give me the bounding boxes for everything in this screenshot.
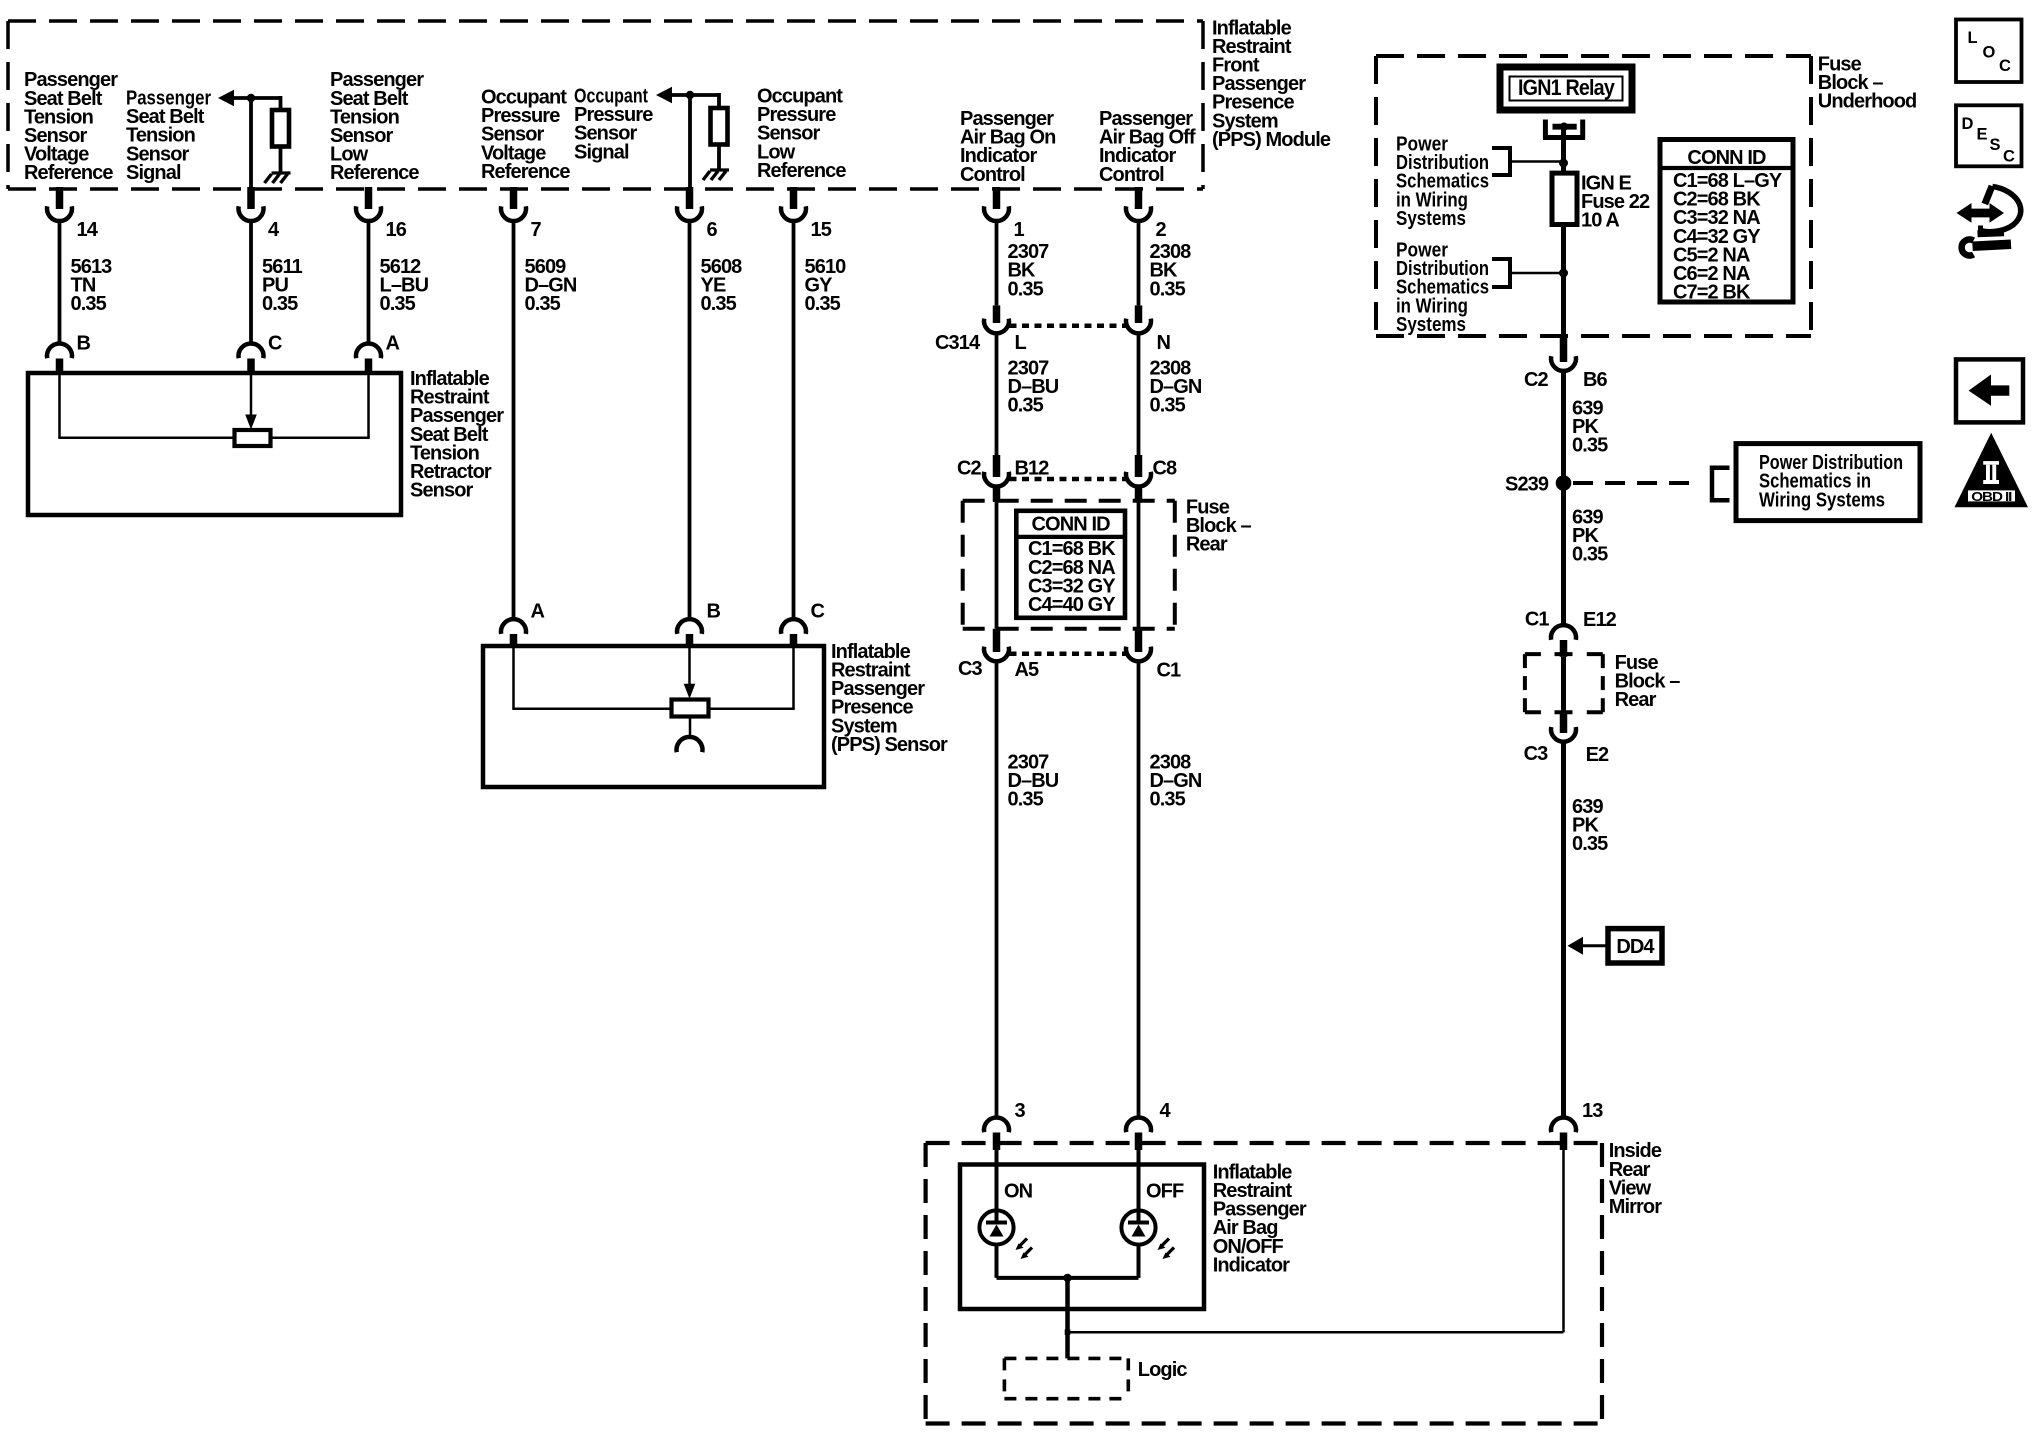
svg-text:C: C [2003, 148, 2015, 166]
wire circuit at x=59.5 module to retractor sensor [58, 221, 62, 344]
svg-text:0.35: 0.35 [380, 293, 416, 315]
svg-text:0.35: 0.35 [1572, 833, 1608, 855]
svg-text:14: 14 [77, 219, 99, 241]
relay pin bracket [1543, 120, 1548, 140]
svg-text:3: 3 [1015, 1100, 1026, 1122]
svg-text:C1: C1 [1525, 608, 1550, 630]
svg-text:Underhood: Underhood [1818, 91, 1917, 113]
wire label 639 PK 0.35 third [1572, 796, 1608, 855]
svg-text:Signal: Signal [574, 141, 629, 163]
pin stub 7 of PPS module [510, 187, 518, 209]
wire through fuse block rear right [1137, 502, 1141, 629]
label Inflatable Restraint Passenger Air Bag ON/OFF Indicator [1213, 1161, 1307, 1276]
pin stub 3 into mirror box [993, 1133, 1001, 1151]
pin stub below fuse block to cup A5 [993, 629, 1001, 652]
wire circuit at x=793.5 module to PPS sensor [792, 221, 796, 619]
CONN ID table underhood fuse block [1660, 140, 1793, 303]
Inside Rear View Mirror dashed box [926, 1143, 1602, 1424]
Power Distribution Schematics in Wiring Systems reference box [1736, 444, 1920, 521]
svg-text:10 A: 10 A [1581, 210, 1619, 232]
connector cup E2 [1551, 727, 1576, 742]
connector cup C retractor sensor [239, 343, 264, 358]
arrow to Occupant Pressure Sensor Signal text [656, 87, 672, 103]
wire B6 to S239 [1561, 371, 1566, 483]
node S junction upper [1559, 159, 1568, 168]
pin stub B into PPS sensor box [686, 634, 694, 647]
wire label 2308 D-GN 0.35 lower [1150, 752, 1202, 811]
pin stub above cup C8 [1135, 455, 1143, 477]
svg-text:L: L [1968, 29, 1978, 47]
PPS module dashed outline box [8, 21, 1203, 189]
IGN1 Relay box [1500, 67, 1632, 110]
connector cup C314 L [984, 319, 1009, 334]
svg-text:4: 4 [1160, 1100, 1172, 1122]
pin stub above C314 N [1135, 305, 1143, 323]
label Passenger Air Bag Off Indicator Control [1099, 108, 1196, 186]
svg-text:0.35: 0.35 [71, 293, 107, 315]
ground hook PPS sensor [677, 737, 703, 752]
svg-text:4: 4 [268, 219, 280, 241]
label Passenger Seat Belt Tension Sensor Signal [126, 88, 211, 184]
svg-text:Rear: Rear [1615, 689, 1657, 711]
connector cup A5 [984, 647, 1009, 662]
svg-text:0.35: 0.35 [1150, 278, 1186, 300]
Fuse Block Rear dashed box [963, 501, 1175, 629]
svg-text:OFF: OFF [1146, 1181, 1184, 1203]
wire bracket upper to node [1512, 160, 1564, 163]
svg-text:Reference: Reference [24, 162, 113, 184]
label Passenger Seat Belt Tension Sensor Voltage Reference [24, 69, 118, 184]
svg-text:Mirror: Mirror [1609, 1196, 1663, 1218]
wire label 2307 BK 0.35 [1008, 241, 1050, 300]
svg-text:C3: C3 [1524, 743, 1549, 765]
lamp ON indicator [979, 1210, 1013, 1244]
svg-text:Control: Control [960, 164, 1025, 186]
ground chassis G2 [703, 170, 729, 180]
connector cup B retractor sensor [47, 343, 72, 358]
wire label 5610 GY 0.35 [805, 256, 847, 315]
svg-text:CONN ID: CONN ID [1032, 514, 1111, 536]
svg-text:0.35: 0.35 [805, 293, 841, 315]
wire fuse to box bottom [1561, 224, 1566, 337]
svg-text:0.35: 0.35 [262, 293, 298, 315]
resistor internal R2 [711, 108, 728, 145]
dotted connector line C3-C1 [1010, 652, 1126, 657]
svg-text:ON: ON [1004, 1181, 1033, 1203]
svg-text:Reference: Reference [757, 160, 846, 182]
pin stub 13 into mirror box [1560, 1133, 1568, 1151]
wire bracket lower to node [1512, 272, 1564, 275]
wire 2307 D-BU fuse block to indicator [995, 661, 999, 1117]
node junction to mirror feed [1065, 1329, 1071, 1335]
label Power Distribution Schematics in Wiring Systems lower [1396, 240, 1489, 336]
CONN ID table rear fuse block [1016, 511, 1125, 618]
pin stub below cup E12 [1560, 640, 1568, 657]
svg-text:DD4: DD4 [1616, 936, 1655, 958]
label Fuse Block Rear right [1615, 652, 1681, 711]
svg-text:B6: B6 [1583, 369, 1608, 391]
svg-text:16: 16 [386, 219, 407, 241]
svg-text:0.35: 0.35 [1572, 544, 1608, 566]
dashed reference line S239 [1573, 481, 1701, 485]
connector cup pin 4 [1126, 1117, 1151, 1132]
connector cup C314 N [1126, 319, 1151, 334]
connector cup pin 7 [501, 206, 526, 221]
connector cup E12 [1551, 625, 1576, 640]
label Inside Rear View Mirror [1609, 1140, 1663, 1218]
connector cup B6 [1551, 356, 1576, 371]
pin stub 1 of PPS module [993, 187, 1001, 209]
label Fuse Block Rear [1186, 497, 1252, 556]
pin stub 16 of PPS module [365, 187, 373, 209]
wire pin4 to OFF lamp [1137, 1150, 1141, 1211]
arrow wiper retractor potentiometer [245, 415, 257, 430]
label Inflatable Restraint Front Passenger Presence System (PPS) Module [1212, 17, 1331, 151]
svg-text:IGN1 Relay: IGN1 Relay [1518, 75, 1615, 100]
fuse IGN E Fuse 22 10A [1552, 173, 1577, 224]
svg-text:0.35: 0.35 [1008, 278, 1044, 300]
Fuse Block Underhood dashed box [1376, 56, 1811, 336]
resistor retractor potentiometer [235, 430, 271, 446]
pin stub 14 of PPS module [56, 187, 64, 209]
connector cup C8 [1126, 472, 1151, 487]
wire internal A leg PPS [512, 646, 515, 709]
pin stub above cup B12 [993, 455, 1001, 477]
pin stub B into retractor sensor box [56, 359, 64, 375]
svg-text:OBD II: OBD II [1971, 490, 2011, 504]
dotted connector line C2-C8 [1010, 477, 1126, 482]
svg-text:2: 2 [1156, 219, 1167, 241]
connector cup C1 [1126, 647, 1151, 662]
svg-text:CONN ID: CONN ID [1687, 147, 1766, 169]
pin stub A into retractor sensor box [365, 359, 373, 375]
wire label 5608 YE 0.35 [701, 256, 743, 315]
svg-text:D: D [1962, 115, 1974, 133]
svg-text:S: S [1990, 136, 2001, 154]
label Occupant Pressure Sensor Low Reference [757, 86, 846, 182]
wire label 639 PK 0.35 first [1572, 398, 1608, 457]
pin stub 15 of PPS module [790, 187, 798, 209]
svg-text:C2: C2 [1524, 369, 1549, 391]
pin stub C into PPS sensor box [790, 634, 798, 647]
connector cup pin 1 [984, 206, 1009, 221]
wire R2 to ground [717, 144, 721, 169]
svg-text:15: 15 [811, 219, 832, 241]
wire pin6 vertical inside module [688, 95, 692, 189]
pin stub above cup E2 [1560, 712, 1568, 733]
ground chassis G1 [265, 173, 291, 183]
resistor PPS potentiometer [672, 700, 709, 717]
svg-text:0.35: 0.35 [525, 293, 561, 315]
svg-text:B: B [77, 332, 91, 354]
wire label 2307 D-BU 0.35 upper [1008, 357, 1059, 416]
connector cup pin 16 [356, 206, 381, 221]
off-page bracket upper [1508, 146, 1512, 177]
wire circuit at x=513.5 module to PPS sensor [512, 221, 516, 619]
pin stub below underhood box [1560, 336, 1568, 362]
wire internal B wiper PPS [688, 646, 691, 685]
wire ON lamp down [995, 1245, 999, 1278]
svg-text:0.35: 0.35 [701, 293, 737, 315]
label IGN E Fuse 22 10 A [1581, 173, 1650, 232]
svg-text:7: 7 [531, 219, 542, 241]
Inflatable Restraint Passenger Seat Belt Tension Retractor Sensor box [28, 373, 401, 515]
wire internal C leg PPS [792, 646, 795, 709]
connector cup pin 4 [239, 206, 264, 221]
svg-text:C: C [811, 600, 825, 622]
Logic dashed box [1004, 1358, 1128, 1398]
svg-text:C2: C2 [957, 457, 982, 479]
arrow wiper PPS potentiometer [684, 684, 696, 699]
connector cup B12 [984, 472, 1009, 487]
wire internal A leg [367, 373, 370, 438]
svg-text:Reference: Reference [481, 161, 570, 183]
svg-text:B: B [707, 600, 721, 622]
svg-text:E2: E2 [1586, 744, 1609, 766]
wire relay to fuse [1561, 127, 1566, 174]
wire R1 to ground [279, 147, 283, 173]
connector cup B PPS sensor [677, 619, 702, 634]
svg-text:Signal: Signal [126, 162, 181, 184]
wire lamps common [997, 1276, 1139, 1280]
svg-text:Systems: Systems [1396, 208, 1466, 230]
label Passenger Air Bag On Indicator Control [960, 108, 1055, 186]
wire 2308 D-GN fuse block to indicator [1137, 661, 1141, 1117]
svg-text:0.35: 0.35 [1008, 395, 1044, 417]
off-page bracket S239 [1710, 466, 1715, 503]
wire circuit 2307 BK pin1 to C314 [995, 221, 999, 305]
light rays OFF lamp [1158, 1239, 1175, 1260]
label Power Distribution Schematics in Wiring Systems upper [1396, 134, 1489, 230]
pin stub above C314 L [993, 305, 1001, 323]
wire pin4 vertical inside module [249, 98, 253, 189]
svg-text:S239: S239 [1505, 474, 1549, 496]
svg-text:C1: C1 [1157, 660, 1182, 682]
wire common down to logic [1065, 1278, 1070, 1359]
wire mirror feed horizontal [1068, 1331, 1564, 1334]
pin stub A into PPS sensor box [510, 634, 518, 647]
pin stub below cup C8 into fuse block [1135, 487, 1143, 503]
connector cup A retractor sensor [356, 343, 381, 358]
wire R2 branch down [717, 93, 721, 109]
wire label 2308 BK 0.35 [1150, 241, 1192, 300]
resistor internal R1 [272, 110, 289, 147]
wire OFF lamp down [1137, 1245, 1141, 1278]
svg-text:Logic: Logic [1138, 1359, 1188, 1381]
dotted connector line C314 [1010, 324, 1126, 329]
wire label 5609 D&#8211;GN 0.35 [525, 256, 577, 315]
svg-text:C314: C314 [935, 332, 981, 354]
svg-text:Wiring Systems: Wiring Systems [1759, 489, 1885, 511]
svg-text:A: A [386, 332, 400, 354]
schematic navigation icon [1957, 203, 2005, 223]
svg-text:A5: A5 [1015, 659, 1040, 681]
label Passenger Seat Belt Tension Sensor Low Reference [330, 69, 424, 184]
label Inflatable Restraint Passenger Presence System (PPS) Sensor [831, 641, 948, 756]
wire 2308 D-GN C314 to fuse block [1137, 333, 1141, 456]
OBD II icon [1955, 433, 2029, 507]
connector cup pin 2 [1126, 206, 1151, 221]
wire PPS resistor to case ground [689, 717, 692, 739]
svg-text:(PPS) Sensor: (PPS) Sensor [831, 734, 948, 756]
wire E2 down to mirror [1561, 742, 1566, 1118]
pin stub below fuse block to cup C1 [1135, 629, 1143, 652]
pin stub 4 of PPS module [247, 187, 255, 209]
label Occupant Pressure Sensor Voltage Reference [481, 87, 570, 183]
Inflatable Restraint Passenger Air Bag ON/OFF Indicator box [960, 1165, 1204, 1310]
svg-text:1: 1 [1014, 219, 1025, 241]
svg-text:Control: Control [1099, 164, 1164, 186]
wire circuit at x=368.5 module to retractor sensor [367, 221, 371, 344]
wire through fuse block rear left [995, 502, 999, 629]
wire circuit 2308 BK pin2 to C314 [1137, 221, 1141, 305]
svg-text:O: O [1983, 44, 1996, 62]
DD4 reference box [1608, 929, 1662, 963]
pin stub below cup B12 into fuse block [993, 487, 1001, 503]
off-page bracket lower [1508, 257, 1512, 289]
svg-text:N: N [1157, 332, 1171, 354]
svg-text:C7=2 BK: C7=2 BK [1673, 282, 1751, 304]
svg-text:Systems: Systems [1396, 314, 1466, 336]
wire internal horizontal R2 [670, 93, 719, 97]
svg-text:E12: E12 [1583, 609, 1617, 631]
wire R1 branch down [279, 96, 283, 111]
wire S239 to C1 E12 [1561, 483, 1566, 625]
svg-text:Reference: Reference [330, 162, 419, 184]
wire internal horizontal R1 [232, 96, 281, 100]
connector cup A PPS sensor [501, 619, 526, 634]
wire through small fuse block [1561, 657, 1566, 713]
node S junction lower [1559, 269, 1568, 278]
node relay pin junction [1560, 123, 1568, 131]
pin stub C into retractor sensor box [247, 359, 255, 375]
label Fuse Block Underhood [1818, 54, 1917, 113]
pin stub 6 of PPS module [686, 187, 694, 209]
node S239 splice [1556, 475, 1572, 491]
connector cup pin 3 [984, 1117, 1009, 1132]
wire label 5613 TN 0.35 [71, 256, 113, 315]
svg-text:A: A [531, 600, 545, 622]
wire DD4 to wire [1583, 944, 1609, 947]
svg-text:0.35: 0.35 [1572, 435, 1608, 457]
label Inflatable Restraint Passenger Seat Belt Tension Retractor Sensor [410, 368, 504, 502]
connector cup C PPS sensor [781, 619, 806, 634]
svg-text:C: C [268, 332, 282, 354]
svg-text:C3: C3 [958, 658, 983, 680]
connector cup pin 6 [677, 206, 702, 221]
pin stub 2 of PPS module [1135, 187, 1143, 209]
DESC icon box [1956, 105, 2022, 166]
Inflatable Restraint Passenger Presence System (PPS) Sensor box [483, 646, 824, 787]
light rays ON lamp [1016, 1239, 1033, 1260]
wire internal C wiper [250, 373, 253, 416]
svg-text:C8: C8 [1153, 457, 1178, 479]
svg-text:Sensor: Sensor [410, 480, 474, 502]
wire 2307 D-BU C314 to fuse block [995, 333, 999, 456]
wire label 5611 PU 0.35 [262, 256, 303, 315]
connector cup pin 14 [47, 206, 72, 221]
svg-text:0.35: 0.35 [1150, 789, 1186, 811]
LOC icon box [1956, 20, 2022, 83]
wire internal B leg [58, 373, 61, 438]
lamp OFF indicator [1121, 1210, 1155, 1244]
svg-text:13: 13 [1582, 1100, 1603, 1122]
pin stub 4 into mirror box [1135, 1133, 1143, 1151]
svg-text:C: C [1999, 57, 2011, 75]
svg-text:B12: B12 [1015, 457, 1050, 479]
back arrow icon box [1956, 359, 2023, 422]
node lamps common junction [1063, 1274, 1071, 1282]
svg-text:0.35: 0.35 [1150, 395, 1186, 417]
wire circuit at x=251 module to retractor sensor [249, 221, 253, 344]
Fuse Block Rear small dashed box [1525, 652, 1541, 656]
arrow DD4 to wire [1568, 937, 1584, 955]
wire circuit at x=689.5 module to PPS sensor [688, 221, 692, 619]
label Occupant Pressure Sensor Signal [574, 86, 653, 164]
wire pin3 to ON lamp [995, 1150, 999, 1211]
wire pin13 down inside mirror box [1562, 1150, 1565, 1332]
arrow to Passenger Seat Belt Tension Sensor Signal text [218, 90, 234, 106]
node junction R1 [247, 94, 255, 102]
svg-text:0.35: 0.35 [1008, 789, 1044, 811]
svg-text:L: L [1015, 332, 1027, 354]
connector cup pin 13 [1551, 1117, 1576, 1132]
connector cup pin 15 [781, 206, 806, 221]
svg-text:(PPS) Module: (PPS) Module [1212, 129, 1331, 151]
wire label 5612 L&#8211;BU 0.35 [380, 256, 429, 315]
svg-text:Indicator: Indicator [1213, 1254, 1290, 1276]
svg-text:6: 6 [707, 219, 718, 241]
svg-text:C4=40 GY: C4=40 GY [1028, 594, 1116, 616]
wire label 2308 D-GN 0.35 upper [1150, 357, 1202, 416]
svg-text:E: E [1977, 126, 1988, 144]
node junction R2 [686, 91, 694, 99]
svg-text:Rear: Rear [1186, 534, 1228, 556]
wire label 639 PK 0.35 second [1572, 507, 1608, 566]
wire label 2307 D-BU 0.35 lower [1008, 752, 1059, 811]
